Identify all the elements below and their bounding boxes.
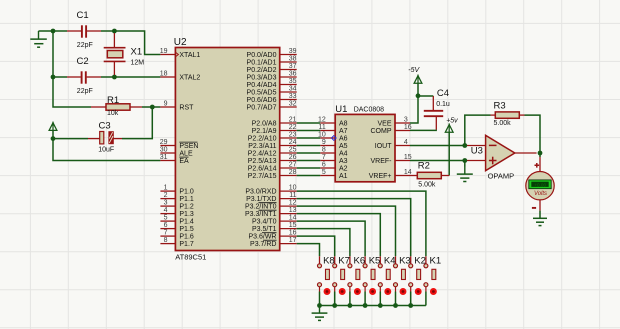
junction (-5V rail / C4) [416, 93, 421, 98]
svg-text:OPAMP: OPAMP [488, 172, 515, 181]
wire left rail C2->RST row [53, 77, 91, 107]
push button K4 [378, 255, 395, 295]
push button K8 [318, 255, 335, 295]
U1 pin 15 VREF- [371, 154, 412, 165]
U2 pin 31 EA [160, 154, 189, 165]
resistor R2 5.00k [410, 160, 449, 188]
svg-text:P1.4: P1.4 [179, 219, 194, 226]
svg-text:2: 2 [164, 192, 168, 199]
U2 pin 12 P3.2/INT0 [245, 200, 297, 211]
wire button K7 to bus [334, 292, 336, 306]
bus junction at K3 [393, 303, 398, 308]
wire U2 pin 26 to U1 pin 7 [297, 160, 321, 162]
push button K7 [333, 255, 350, 295]
U2 pin 32 P0.7/AD7 [247, 100, 297, 111]
wire button K1 to bus [425, 292, 427, 306]
ground bus wire [320, 305, 426, 307]
U2 pin 24 P2.3/A11 [248, 139, 296, 150]
svg-text:8: 8 [322, 146, 326, 153]
junction (RST / C3 branch) [150, 105, 155, 110]
resistor R3 5.00k [491, 101, 525, 128]
svg-text:1: 1 [164, 185, 168, 192]
power symbol -5V [408, 67, 422, 96]
svg-text:33: 33 [289, 93, 297, 100]
svg-text:22pF: 22pF [77, 88, 93, 95]
bus junction at K8 [317, 303, 322, 308]
junction node A (left rail / C1 / ground) [51, 29, 56, 34]
svg-text:39: 39 [289, 48, 297, 55]
svg-text:31: 31 [160, 154, 168, 161]
ground (top left) [30, 31, 53, 47]
svg-text:U3: U3 [471, 145, 483, 156]
U1 pin 5 A1 [320, 169, 347, 180]
svg-text:9: 9 [322, 139, 326, 146]
U2 pin 13 P3.3/INT1 [245, 207, 297, 218]
capacitor C1 [55, 10, 114, 49]
svg-text:P2.1/A9: P2.1/A9 [252, 128, 277, 135]
wire C2 row to XTAL2 [114, 76, 160, 78]
op-amp U3 [471, 135, 515, 180]
wire node to EA pin [53, 139, 160, 161]
U2 pin 23 P2.2/A10 [248, 131, 297, 142]
svg-text:+5v: +5v [446, 118, 458, 125]
svg-text:8: 8 [164, 237, 168, 244]
wire U2 pin 12 to button K3 [297, 206, 396, 264]
IC U2 AT89C51 body [174, 37, 280, 261]
U2 pin 35 P0.4/AD4 [247, 78, 297, 89]
svg-text:XTAL1: XTAL1 [179, 52, 200, 59]
wire U2 pin 25 to U1 pin 8 [297, 152, 321, 154]
push button K3 [394, 255, 411, 295]
wire R1 to RST pin [142, 106, 160, 108]
U2 pin 19 XTAL1 [160, 48, 201, 59]
svg-text:30: 30 [160, 146, 168, 153]
U2 pin 17 P3.7/RD [250, 237, 297, 248]
svg-text:A5: A5 [339, 143, 348, 150]
U2 pin 5 P1.4 [160, 215, 194, 226]
junction (output / feedback / meter) [538, 151, 543, 156]
svg-text:5: 5 [322, 169, 326, 176]
svg-text:-5V: -5V [408, 67, 420, 74]
U2 pin 8 P1.7 [160, 237, 194, 248]
svg-text:3: 3 [404, 116, 408, 123]
U1 pin 9 A5 [320, 139, 347, 150]
wire VEE to -5V rail [410, 96, 418, 123]
wire U2 pin 11 to button K2 [297, 199, 411, 264]
IC U1 DAC0808 body [335, 104, 395, 182]
svg-text:14: 14 [404, 169, 412, 176]
svg-text:P0.0/AD0: P0.0/AD0 [247, 52, 277, 59]
capacitor C3 10uF (electrolytic) [88, 120, 122, 153]
bus junction at K4 [378, 303, 383, 308]
svg-text:24: 24 [289, 139, 297, 146]
svg-text:P1.7: P1.7 [179, 241, 194, 248]
svg-text:9: 9 [164, 100, 168, 107]
wire C1 row to XTAL1 [114, 31, 160, 55]
svg-text:P3.3/INT1: P3.3/INT1 [245, 211, 277, 218]
svg-text:P3.1/TXD: P3.1/TXD [246, 196, 276, 203]
U2 pin 36 P0.3/AD3 [247, 70, 297, 81]
svg-text:35: 35 [289, 78, 297, 85]
svg-text:18: 18 [160, 70, 168, 77]
svg-text:RST: RST [179, 105, 194, 112]
svg-text:Volts: Volts [534, 191, 547, 197]
svg-text:P3.4/T0: P3.4/T0 [252, 219, 277, 226]
U2 pin 7 P1.6 [160, 230, 194, 241]
wire button K6 to bus [349, 292, 351, 306]
svg-text:P1.6: P1.6 [179, 234, 194, 241]
ground (voltmeter) [533, 218, 547, 225]
svg-text:10: 10 [289, 185, 297, 192]
svg-text:U1: U1 [335, 104, 347, 115]
U1 pin 7 A3 [320, 154, 347, 165]
wire left rail C1->C2 [52, 31, 54, 77]
U2 pin 26 P2.5/A13 [248, 154, 297, 165]
wire button K4 to bus [379, 292, 381, 306]
U2 pin 21 P2.0/A8 [252, 116, 297, 127]
svg-text:5.00k: 5.00k [418, 181, 436, 188]
wire feedback loop [465, 115, 540, 153]
wire U2 pin 28 to U1 pin 5 [297, 175, 321, 177]
push button K2 [409, 255, 426, 295]
junction (power / C3 / EA) [51, 136, 56, 141]
svg-text:C2: C2 [77, 56, 89, 67]
svg-text:K1: K1 [430, 255, 442, 266]
U1 pin 11 A7 [319, 124, 348, 135]
svg-text:22pF: 22pF [77, 42, 93, 49]
svg-text:36: 36 [289, 70, 297, 77]
svg-text:22: 22 [289, 124, 297, 131]
svg-text:28: 28 [289, 169, 297, 176]
wire U2 pin 24 to U1 pin 9 [297, 145, 321, 147]
svg-text:P2.2/A10: P2.2/A10 [248, 136, 277, 143]
junction (VREF- / ground) [462, 158, 467, 163]
wire U2 pin 14 to button K5 [297, 221, 365, 264]
svg-text:X1: X1 [131, 46, 143, 57]
svg-text:32: 32 [289, 100, 297, 107]
svg-text:A6: A6 [339, 136, 348, 143]
bus entry marker (blue) at U1 pin A6 [331, 136, 336, 141]
U2 pin 33 P0.6/AD6 [247, 93, 297, 104]
U2 pin 28 P2.7/A15 [248, 169, 297, 180]
svg-text:A1: A1 [339, 173, 348, 180]
U2 pin 18 XTAL2 [160, 70, 201, 81]
U2 pin 3 P1.2 [160, 200, 194, 211]
svg-text:17: 17 [289, 237, 297, 244]
svg-text:P1.2: P1.2 [179, 204, 194, 211]
svg-text:P1.0: P1.0 [179, 189, 194, 196]
bus junction at K7 [332, 303, 337, 308]
svg-text:P3.6/WR: P3.6/WR [248, 234, 276, 241]
svg-text:R2: R2 [418, 160, 430, 171]
svg-text:EA: EA [179, 158, 189, 165]
U1 pin 4 IOUT [375, 139, 410, 150]
wire C3 branch vertical [122, 107, 152, 139]
svg-text:P2.4/A12: P2.4/A12 [248, 151, 277, 158]
wire button K3 to bus [395, 292, 397, 306]
U1 pin 12 A8 [318, 116, 348, 127]
svg-text:13: 13 [289, 207, 297, 214]
svg-text:P1.5: P1.5 [179, 226, 194, 233]
svg-text:16: 16 [289, 230, 297, 237]
wire U2 pin 23 to U1 pin 10 [297, 137, 321, 139]
svg-text:C3: C3 [99, 120, 111, 131]
svg-text:P1.3: P1.3 [179, 211, 194, 218]
resistor R1 10k [91, 95, 142, 117]
svg-text:P0.4/AD4: P0.4/AD4 [247, 82, 277, 89]
power symbol VCC (above C3 node) [49, 122, 57, 139]
wire C3 node [53, 138, 88, 140]
svg-text:P0.7/AD7: P0.7/AD7 [247, 105, 277, 112]
svg-text:IOUT: IOUT [375, 143, 392, 150]
svg-text:29: 29 [160, 139, 168, 146]
svg-text:4: 4 [164, 207, 168, 214]
svg-text:A2: A2 [339, 166, 348, 173]
svg-text:P2.0/A8: P2.0/A8 [252, 121, 277, 128]
crystal X1 12M [104, 33, 145, 75]
svg-text:7: 7 [164, 230, 168, 237]
svg-text:15: 15 [289, 222, 297, 229]
svg-text:14: 14 [289, 215, 297, 222]
svg-text:0.1u: 0.1u [436, 101, 450, 108]
U1 pin 6 A2 [320, 161, 347, 172]
U2 pin 39 P0.0/AD0 [247, 48, 297, 59]
wire button K2 to bus [410, 292, 412, 306]
junction (IOUT / feedback) [462, 143, 467, 148]
U2 pin 16 P3.6/WR [248, 230, 296, 241]
svg-text:P2.5/A13: P2.5/A13 [248, 158, 277, 165]
svg-text:P2.6/A14: P2.6/A14 [248, 166, 277, 173]
svg-text:P0.6/AD6: P0.6/AD6 [247, 97, 277, 104]
svg-text:37: 37 [289, 63, 297, 70]
U2 pin 11 P3.1/TXD [246, 192, 297, 203]
svg-text:7: 7 [322, 154, 326, 161]
svg-text:P3.5/T1: P3.5/T1 [252, 226, 277, 233]
U2 pin 27 P2.6/A14 [248, 161, 297, 172]
U2 pin 15 P3.5/T1 [252, 222, 297, 233]
svg-text:P0.3/AD3: P0.3/AD3 [247, 75, 277, 82]
svg-text:DAC0808: DAC0808 [354, 106, 384, 113]
svg-text:P3.7/RD: P3.7/RD [250, 241, 276, 248]
U1 pin 8 A4 [320, 146, 347, 157]
U2 XTAL1 clock marker [176, 53, 179, 57]
power symbol +5v [445, 118, 458, 133]
junction (C1 / crystal top) [112, 29, 117, 34]
push button K6 [348, 255, 365, 295]
svg-text:VEE: VEE [377, 121, 391, 128]
wire op-amp output [515, 152, 537, 154]
svg-text:5.00k: 5.00k [494, 120, 512, 127]
U1 pin 14 VREF+ [369, 169, 412, 180]
svg-text:PSEN: PSEN [179, 143, 198, 150]
svg-text:19: 19 [160, 48, 168, 55]
svg-text:P0.5/AD5: P0.5/AD5 [247, 90, 277, 97]
U2 pin 30 ALE [160, 146, 193, 157]
U2 pin 10 P3.0/RXD [245, 185, 296, 196]
svg-text:C1: C1 [77, 10, 89, 21]
svg-text:23: 23 [289, 131, 297, 138]
U2 pin 4 P1.3 [160, 207, 194, 218]
svg-text:P0.1/AD1: P0.1/AD1 [247, 60, 277, 67]
wire U2 pin 22 to U1 pin 11 [297, 130, 321, 132]
U1 pin 16 COMP [371, 124, 412, 135]
svg-text:ALE: ALE [179, 151, 193, 158]
svg-text:3: 3 [164, 200, 168, 207]
U2 pin 37 P0.2/AD2 [247, 63, 297, 74]
U1 pin 3 VEE [377, 116, 410, 127]
U2 pin 1 P1.0 [160, 185, 194, 196]
wire U2 pin 21 to U1 pin 12 [297, 122, 321, 124]
svg-text:P0.2/AD2: P0.2/AD2 [247, 67, 277, 74]
svg-text:12M: 12M [131, 59, 145, 66]
svg-text:P3.2/INT0: P3.2/INT0 [245, 204, 277, 211]
wire VREF- to op-amp non-inverting input [410, 160, 486, 162]
junction (left rail / C2) [51, 75, 56, 80]
wire U2 pin 16 to button K7 [297, 236, 335, 264]
svg-text:AT89C51: AT89C51 [175, 252, 206, 261]
wire button K8 to bus [319, 292, 321, 306]
svg-text:38: 38 [289, 55, 297, 62]
U2 pin 22 P2.1/A9 [252, 124, 297, 135]
bus junction at K6 [348, 303, 353, 308]
capacitor C4 0.1u [410, 88, 450, 130]
junction (C2 / crystal bottom) [112, 75, 117, 80]
svg-text:A3: A3 [339, 158, 348, 165]
push button K5 [363, 255, 380, 295]
voltmeter (Volts) [526, 153, 554, 218]
U2 pin 2 P1.1 [160, 192, 194, 203]
wire +5v rail to R2 [448, 132, 450, 175]
svg-text:P2.7/A15: P2.7/A15 [248, 173, 277, 180]
svg-text:R1: R1 [107, 95, 119, 106]
wire U2 pin 17 to button K8 [297, 244, 320, 264]
svg-text:10k: 10k [107, 110, 119, 117]
svg-text:A8: A8 [339, 121, 348, 128]
U2 pin 14 P3.4/T0 [252, 215, 297, 226]
wire U2 pin 10 to button K1 [297, 191, 426, 264]
wire U2 pin 27 to U1 pin 6 [297, 167, 321, 169]
svg-text:21: 21 [289, 116, 297, 123]
svg-text:A4: A4 [339, 151, 348, 158]
svg-text:27: 27 [289, 161, 297, 168]
svg-text:6: 6 [322, 161, 326, 168]
svg-text:U2: U2 [174, 37, 187, 48]
U2 pin 9 RST [160, 100, 194, 111]
svg-text:6: 6 [164, 222, 168, 229]
ground (button bus) [312, 306, 328, 321]
svg-text:11: 11 [289, 192, 296, 199]
bus junction at K2 [408, 303, 413, 308]
svg-text:VREF+: VREF+ [369, 173, 392, 180]
ground (op-amp + input) [457, 161, 473, 182]
svg-text:P3.0/RXD: P3.0/RXD [245, 189, 276, 196]
svg-text:25: 25 [289, 146, 297, 153]
U2 pin 29 PSEN [160, 139, 199, 150]
svg-text:34: 34 [289, 85, 297, 92]
svg-text:A7: A7 [339, 128, 348, 135]
wire U2 pin 15 to button K6 [297, 229, 350, 264]
svg-text:COMP: COMP [371, 128, 392, 135]
svg-text:R3: R3 [494, 101, 506, 112]
bus junction at K5 [363, 303, 368, 308]
svg-text:XTAL2: XTAL2 [179, 75, 200, 82]
capacitor C2 [55, 56, 114, 95]
svg-text:26: 26 [289, 154, 297, 161]
push button K1 [424, 255, 441, 295]
svg-text:10uF: 10uF [98, 147, 114, 154]
wire button K5 to bus [364, 292, 366, 306]
U2 pin 34 P0.5/AD5 [247, 85, 297, 96]
U2 pin 6 P1.5 [160, 222, 194, 233]
svg-text:+0.00: +0.00 [534, 183, 546, 188]
svg-text:4: 4 [404, 139, 408, 146]
svg-text:5: 5 [164, 215, 168, 222]
U2 pin 38 P0.1/AD1 [247, 55, 297, 66]
svg-text:VREF-: VREF- [371, 158, 393, 165]
wire U2 pin 13 to button K4 [297, 214, 381, 264]
svg-text:12: 12 [289, 200, 297, 207]
svg-text:P1.1: P1.1 [179, 196, 194, 203]
U1 pin 10 A6 [318, 131, 348, 142]
U2 pin 25 P2.4/A12 [248, 146, 297, 157]
svg-text:P2.3/A11: P2.3/A11 [248, 143, 276, 150]
svg-text:C4: C4 [437, 88, 449, 99]
wire IOUT to op-amp inverting input [410, 145, 486, 147]
